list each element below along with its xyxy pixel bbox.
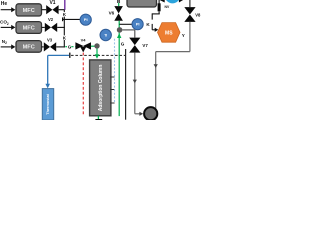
wire line top edge to V8 (189, 0, 191, 7)
arrow flow V8 line (154, 64, 158, 68)
wire thermocouple tap 1 (110, 76, 114, 78)
wire V3 to manifold junction (56, 46, 65, 48)
wire green bypass dash start (65, 46, 67, 48)
valve V6 (109, 6, 123, 21)
wire line top edge to NV (158, 0, 160, 4)
svg-text:V2: V2 (48, 17, 54, 22)
wire blue thermostat line vertical arrow (45, 55, 50, 88)
wire green bypass dashed to V4 (71, 46, 75, 48)
svg-text:V1: V1 (49, 0, 55, 6)
valve V1 (46, 0, 58, 14)
wire green stub above V6 (118, 3, 120, 6)
node junction dot outlet (117, 27, 123, 33)
mass spectrometer MS (158, 23, 181, 43)
adsorption column (90, 60, 111, 116)
MFC 1 (16, 4, 42, 16)
MFC 3 (16, 41, 42, 53)
wire manifold segment K1 to K2 (63, 17, 65, 36)
wire PI1 stub end cap (62, 17, 64, 21)
wire manifold segment to V3 row (63, 40, 65, 48)
arrow green up into dot (117, 33, 121, 38)
wire MFC3 to V3 (42, 46, 44, 48)
svg-text:He: He (1, 1, 8, 7)
wire capillary arrow into MS (152, 24, 158, 32)
wire green main line right of column (118, 33, 120, 117)
wire thermocouple tap 2 (110, 89, 114, 91)
arrow green into column top (95, 54, 99, 58)
wire N2 inlet arrow (1, 44, 16, 49)
svg-text:V6: V6 (109, 11, 115, 16)
valve cut off at top with blue actuator (160, 0, 184, 3)
svg-text:MFC: MFC (23, 44, 35, 50)
needle valve NV (158, 3, 170, 11)
svg-text:G: G (121, 42, 125, 47)
wire blue thermostat line horizontal (48, 54, 69, 56)
wire MFC2 to V2 (42, 26, 45, 28)
svg-text:PI: PI (136, 22, 140, 27)
gauge TI (100, 29, 111, 40)
wire He inlet arrow (1, 7, 16, 12)
gauge PI2 (132, 19, 143, 30)
wire black dashed bypass return line (71, 54, 126, 56)
svg-text:NV: NV (165, 5, 170, 9)
MFC 2 (16, 22, 42, 34)
svg-text:PI: PI (84, 17, 88, 22)
wire dot to V7 (122, 30, 134, 38)
arrow flow V7 line (133, 80, 137, 84)
wire CO2 inlet arrow (1, 25, 16, 30)
gauge PI1 (80, 14, 91, 25)
wire V1 to manifold (59, 9, 65, 11)
valve V3 (44, 37, 56, 51)
svg-text:Adsorption Column: Adsorption Column (98, 65, 104, 112)
svg-text:G: G (68, 44, 72, 49)
wire V4 to junction dot (91, 45, 95, 47)
svg-text:MFC: MFC (23, 26, 35, 32)
pump (144, 107, 157, 120)
wire V8 to pump (156, 22, 190, 109)
valve V2 (45, 17, 57, 32)
svg-text:V8: V8 (195, 12, 201, 17)
wire manifold stub below V1 junction (63, 10, 65, 12)
svg-text:V3: V3 (47, 37, 53, 42)
wire stub to PI2 (119, 23, 132, 25)
svg-text:V7: V7 (142, 43, 148, 48)
svg-text:V4: V4 (81, 38, 87, 43)
wire purple supply line (64, 0, 66, 10)
svg-text:Y: Y (182, 33, 185, 38)
wire manifold to PI1 (63, 18, 81, 20)
wire MFC1 to V1 (42, 9, 47, 11)
svg-text:TI: TI (104, 33, 107, 37)
valve V4 three-way (75, 38, 91, 53)
top gray box (127, 0, 157, 7)
valve V7 (129, 38, 148, 53)
wire green stub column bottom (97, 116, 99, 120)
wire blue line end cap (69, 53, 71, 58)
wire green down to column (96, 49, 98, 55)
svg-text:Thermostat: Thermostat (46, 93, 50, 114)
wire V7 down to pump (135, 53, 143, 116)
node junction dot column top (94, 43, 99, 48)
svg-text:MS: MS (165, 30, 173, 36)
wire light blue dashed thermocouple line (114, 39, 116, 103)
wire NV to MS capillary (152, 11, 160, 19)
valve V8 (184, 7, 201, 22)
wire red dashed line V4 to column bottom (82, 53, 84, 116)
svg-text:MFC: MFC (23, 8, 35, 14)
wire V2 to manifold (57, 26, 65, 28)
wire green line V6 to dot (118, 21, 120, 28)
wire thermocouple tap 3 (110, 102, 114, 104)
wire black bar below column (95, 119, 102, 120)
wire black line to bottom edge (125, 49, 127, 120)
thermostat (42, 89, 53, 120)
